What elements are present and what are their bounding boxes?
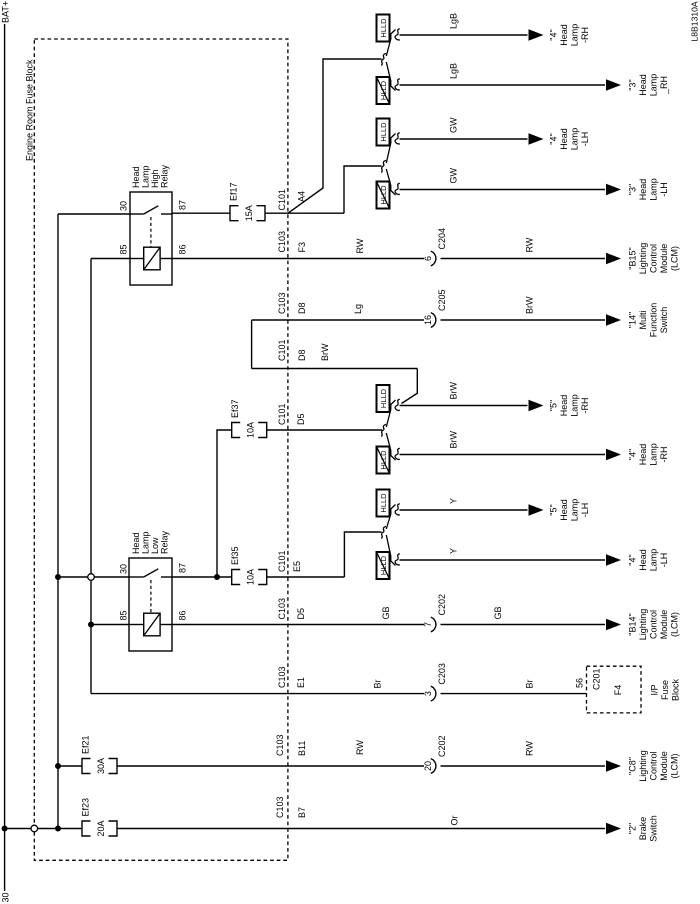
svg-text:Lamp: Lamp [649,443,659,466]
connector C204 pin 6 [423,228,447,266]
wire A2: LgB to "3" Head Lamp -RH [400,63,670,96]
wire: Ef17 through C101 pin A4 [265,189,344,213]
svg-text:Head: Head [638,179,648,201]
svg-text:C103: C103 [277,231,287,253]
svg-text:Lamp: Lamp [570,128,580,151]
engine room fuse block (dashed boundary) [25,39,288,860]
svg-text:"4": "4" [549,29,559,40]
svg-text:HLLD: HLLD [379,18,388,38]
node: junction Ef37 branch [214,574,220,580]
svg-text:(LCM): (LCM) [670,246,680,271]
svg-text:30A: 30A [96,758,106,774]
I/P fuse block with fuse F4 (dashed box) [587,666,681,713]
svg-text:Ef35: Ef35 [230,546,240,565]
svg-text:HLLD: HLLD [379,555,388,575]
svg-text:Module: Module [659,610,669,640]
svg-text:Fuse: Fuse [660,680,670,700]
svg-text:Lamp: Lamp [649,178,659,201]
svg-text:C201: C201 [592,668,602,690]
wire: riser to low relay pin 85 [91,624,129,626]
svg-text:30: 30 [119,201,129,211]
svg-text:Y: Y [449,498,459,504]
option tag HLLD (without) for wire A2 [377,77,390,104]
wire A4: GW to "3" Head Lamp -LH [400,167,670,200]
svg-text:Br: Br [373,679,383,688]
wire: Ef23 through C103 pin B7, Or to "2" Brake Switch [117,796,659,841]
svg-text:Lamp: Lamp [570,394,580,417]
svg-text:HLLD: HLLD [379,493,388,513]
svg-text:85: 85 [119,244,129,254]
svg-text:HLLD: HLLD [379,388,388,408]
option tag HLLD (with) for wire A3 [377,119,390,146]
wire: Ef37 through C101 pin D5 to RH low-beam split [267,403,382,430]
svg-text:Engine Room Fuse Block: Engine Room Fuse Block [25,59,35,161]
connector C202 pin 20 [423,735,447,773]
svg-text:Block: Block [671,679,681,702]
svg-text:Head: Head [638,444,648,466]
svg-text:Head: Head [559,128,569,150]
node: pass-through at fuse block boundary [31,825,38,832]
svg-text:RW: RW [525,237,535,252]
svg-text:HLLD: HLLD [379,122,388,142]
node: junction bus / low relay 30 [55,574,61,580]
node: junction bus / Ef21 [55,763,61,769]
svg-text:E5: E5 [292,561,302,572]
svg-text:High: High [150,169,160,188]
svg-text:3: 3 [423,691,433,696]
wire D1: Y to "5" Head Lamp -LH [400,498,591,521]
option tag HLLD (with) for wire C1 [377,385,390,412]
wire: battery bus to fuse Ef23 [5,828,82,830]
svg-text:Or: Or [450,815,460,825]
svg-text:56: 56 [575,678,585,688]
connector C203 pin 3 [423,663,447,701]
svg-text:BrW: BrW [320,343,330,361]
wire: RW to "B15" Lighting Control Module [441,237,680,274]
svg-text:"3": "3" [628,184,638,195]
svg-text:C101: C101 [277,189,287,211]
svg-text:Low: Low [150,537,160,554]
svg-text:D8: D8 [297,302,307,314]
svg-text:C103: C103 [277,292,287,314]
wire: C103 pin D8, Lg to Multi Function Switch [252,292,424,368]
svg-text:RW: RW [355,238,365,253]
relay U2 Head Lamp Low Relay [119,530,188,651]
svg-text:C103: C103 [277,666,287,688]
relay U1 Head Lamp High Relay [119,164,188,285]
node: junction bus / Ef23 [55,826,61,832]
svg-text:7: 7 [423,622,433,627]
svg-text:D5: D5 [296,608,306,620]
wire: high relay 86 through C103 pin F3, RW to LCM B15 [172,231,424,259]
node: option split for RH high beam [381,29,400,91]
svg-text:-LH: -LH [659,182,669,197]
svg-text:Head: Head [638,74,648,96]
svg-text:"B15": "B15" [628,247,638,269]
svg-text:"5": "5" [549,504,559,515]
svg-text:30: 30 [0,892,10,902]
svg-text:Ef37: Ef37 [230,399,240,418]
svg-text:C205: C205 [437,289,447,311]
connector C205 pin 16 [423,289,447,327]
fuse Ef17 15A [229,182,266,221]
svg-text:C103: C103 [277,598,287,620]
wire: Ef35 through C101 pin E5 to LH low-beam feed [267,532,382,577]
svg-text:C103: C103 [275,734,285,756]
wire A3: GW to "4" Head Lamp -LH [400,117,591,150]
connector C202 pin 7 [423,594,447,632]
svg-text:87: 87 [178,563,188,573]
svg-text:Switch: Switch [659,307,669,334]
wire: C101 pin D8 BrW to HLLD branch [252,339,418,403]
svg-text:-LH: -LH [580,503,590,518]
fuse Ef21 30A [81,735,118,774]
svg-text:Y: Y [449,548,459,554]
svg-text:-RH: -RH [580,398,590,414]
svg-text:Head: Head [638,549,648,571]
svg-text:BrW: BrW [525,296,535,314]
svg-text:86: 86 [178,610,188,620]
svg-text:Lamp: Lamp [649,549,659,572]
svg-text:"5": "5" [549,400,559,411]
svg-text:Head: Head [559,499,569,521]
svg-text:BAT+: BAT+ [1,1,11,23]
fuse Ef35 10A [230,546,267,585]
svg-text:Function: Function [649,303,659,338]
svg-text:L8B1310A: L8B1310A [690,1,700,41]
svg-text:C204: C204 [437,228,447,250]
svg-text:Brake: Brake [638,817,648,841]
svg-text:GW: GW [449,117,459,133]
svg-text:C103: C103 [275,796,285,818]
wire: bus to fuse Ef21 [58,765,82,767]
svg-text:BrW: BrW [449,382,459,400]
svg-text:"14": "14" [628,312,638,328]
node: crossover (no connection) on 85 riser [88,574,95,581]
svg-text:6: 6 [423,256,433,261]
node: option split for LH low beam [381,504,400,566]
wire: relay control feed (85 side riser) [90,259,92,694]
svg-text:GB: GB [381,606,391,619]
wire: feed bus inside fuse block [57,214,59,829]
svg-text:Lamp: Lamp [141,165,151,188]
svg-text:-RH: -RH [659,447,669,463]
svg-text:Head: Head [131,166,141,188]
fuse Ef23 20A [81,798,118,837]
svg-text:LgB: LgB [449,13,459,29]
svg-text:"4": "4" [628,554,638,565]
svg-text:"B14": "B14" [628,613,638,635]
svg-text:B7: B7 [297,807,307,818]
svg-text:C203: C203 [437,663,447,685]
svg-text:Module: Module [659,244,669,274]
svg-text:30: 30 [119,564,129,574]
svg-text:85: 85 [119,610,129,620]
option tag HLLD (with) for wire A1 [377,15,390,42]
svg-text:Control: Control [649,244,659,273]
svg-text:Lighting: Lighting [638,609,648,641]
wire: fork diagonal to RH high-beam riser [288,59,382,213]
svg-text:C101: C101 [277,339,287,361]
svg-text:"C8": "C8" [628,757,638,775]
svg-text:RW: RW [355,740,365,755]
wire: GB to "B14" Lighting Control Module [441,606,680,640]
svg-text:-LH: -LH [580,132,590,147]
svg-text:(LCM): (LCM) [670,754,680,779]
node: junction on BAT+ bus [2,826,8,832]
svg-text:-LH: -LH [659,553,669,568]
svg-text:86: 86 [178,244,188,254]
svg-text:HLLD: HLLD [379,450,388,470]
fuse Ef37 10A branch riser [217,430,232,577]
svg-text:16: 16 [423,315,433,325]
wire: Br to C201 pin 56 [441,678,587,694]
svg-text:15A: 15A [244,205,254,221]
wire A1: LgB to "4" Head Lamp -RH [400,13,591,46]
svg-text:Lamp: Lamp [570,24,580,47]
svg-text:10A: 10A [246,422,256,438]
svg-text:Lighting: Lighting [638,750,648,782]
wire: high relay 87 to fuse Ef17 [172,212,230,214]
svg-text:Ef21: Ef21 [81,735,91,754]
svg-text:D5: D5 [296,413,306,425]
wire C2: BrW to "4" Head Lamp -RH [400,431,670,466]
svg-text:C101: C101 [277,550,287,572]
svg-text:Lamp: Lamp [141,531,151,554]
svg-text:Ef17: Ef17 [229,182,239,201]
svg-text:B11: B11 [297,741,307,756]
svg-text:-RH: -RH [580,27,590,43]
wire C1: BrW to "5" Head Lamp -RH [400,382,591,417]
svg-text:_RH: _RH [659,76,669,95]
svg-text:HLLD: HLLD [379,185,388,205]
svg-text:Module: Module [659,751,669,781]
svg-text:Ef23: Ef23 [81,798,91,817]
wire: low relay 86 through C103 pin D5, GB to LCM B14 [172,598,424,625]
svg-text:Control: Control [649,751,659,780]
wire: RW to "C8" Lighting Control Module [441,741,680,782]
wire: BrW to "14" Multi Function Switch [441,296,670,337]
svg-text:Head: Head [131,532,141,554]
node: option split for LH high beam [381,133,400,195]
svg-text:BrW: BrW [449,431,459,449]
svg-text:F4: F4 [613,685,623,696]
svg-text:RW: RW [525,741,535,756]
option tag HLLD (without) for wire C2 [377,447,390,474]
svg-text:20: 20 [423,761,433,771]
svg-text:Relay: Relay [160,164,170,188]
svg-text:HLLD: HLLD [379,80,388,100]
wire: Ef21 through C103 pin B11, RW to LCM C8 [117,734,424,766]
wire: C103 pin E1, Br to I/P fuse block [91,666,424,693]
svg-text:E1: E1 [296,677,306,688]
svg-text:I/P: I/P [650,684,660,695]
svg-text:Relay: Relay [160,530,170,554]
svg-text:10A: 10A [246,569,256,585]
svg-text:GB: GB [493,606,503,619]
svg-text:Head: Head [559,24,569,46]
wire: bus to high relay pin 30 [58,213,130,215]
svg-text:Lamp: Lamp [649,74,659,97]
node: option split for RH low beam [381,399,400,460]
svg-text:Lg: Lg [353,304,363,314]
svg-text:Control: Control [649,610,659,639]
svg-text:F3: F3 [297,242,307,253]
svg-text:"4": "4" [628,449,638,460]
wire: bus to low relay pin 30 [58,576,129,578]
wire: low relay 87 to fuse Ef35 [172,576,232,578]
svg-text:Br: Br [525,679,535,688]
wire: BAT+ supply bus (terminal 30) [0,1,10,903]
svg-text:Multi: Multi [638,310,648,329]
svg-text:20A: 20A [96,820,106,836]
wire D2: Y to "4" Head Lamp -LH [400,548,670,571]
svg-text:GW: GW [449,167,459,183]
wire: riser to LH high-beam feed [344,166,382,213]
node: junction 85 riser / low relay [88,622,94,628]
svg-text:"3": "3" [628,79,638,90]
option tag HLLD (with) for wire D1 [377,490,390,517]
svg-text:Lamp: Lamp [570,499,580,522]
svg-text:Lighting: Lighting [638,243,648,275]
svg-text:D8: D8 [297,349,307,361]
option tag HLLD (without) for wire D2 [377,552,390,579]
svg-text:(LCM): (LCM) [670,612,680,637]
svg-text:Head: Head [559,395,569,417]
svg-text:LgB: LgB [449,63,459,79]
svg-text:87: 87 [178,200,188,210]
svg-text:"2": "2" [628,823,638,834]
svg-text:C101: C101 [277,403,287,425]
svg-text:"4": "4" [549,133,559,144]
fuse Ef37 10A [230,399,267,438]
svg-text:Switch: Switch [649,815,659,842]
wire: riser to high relay pin 85 [91,258,130,260]
option tag HLLD (without) for wire A4 [377,182,390,209]
svg-text:C202: C202 [437,594,447,616]
svg-text:C202: C202 [437,735,447,757]
